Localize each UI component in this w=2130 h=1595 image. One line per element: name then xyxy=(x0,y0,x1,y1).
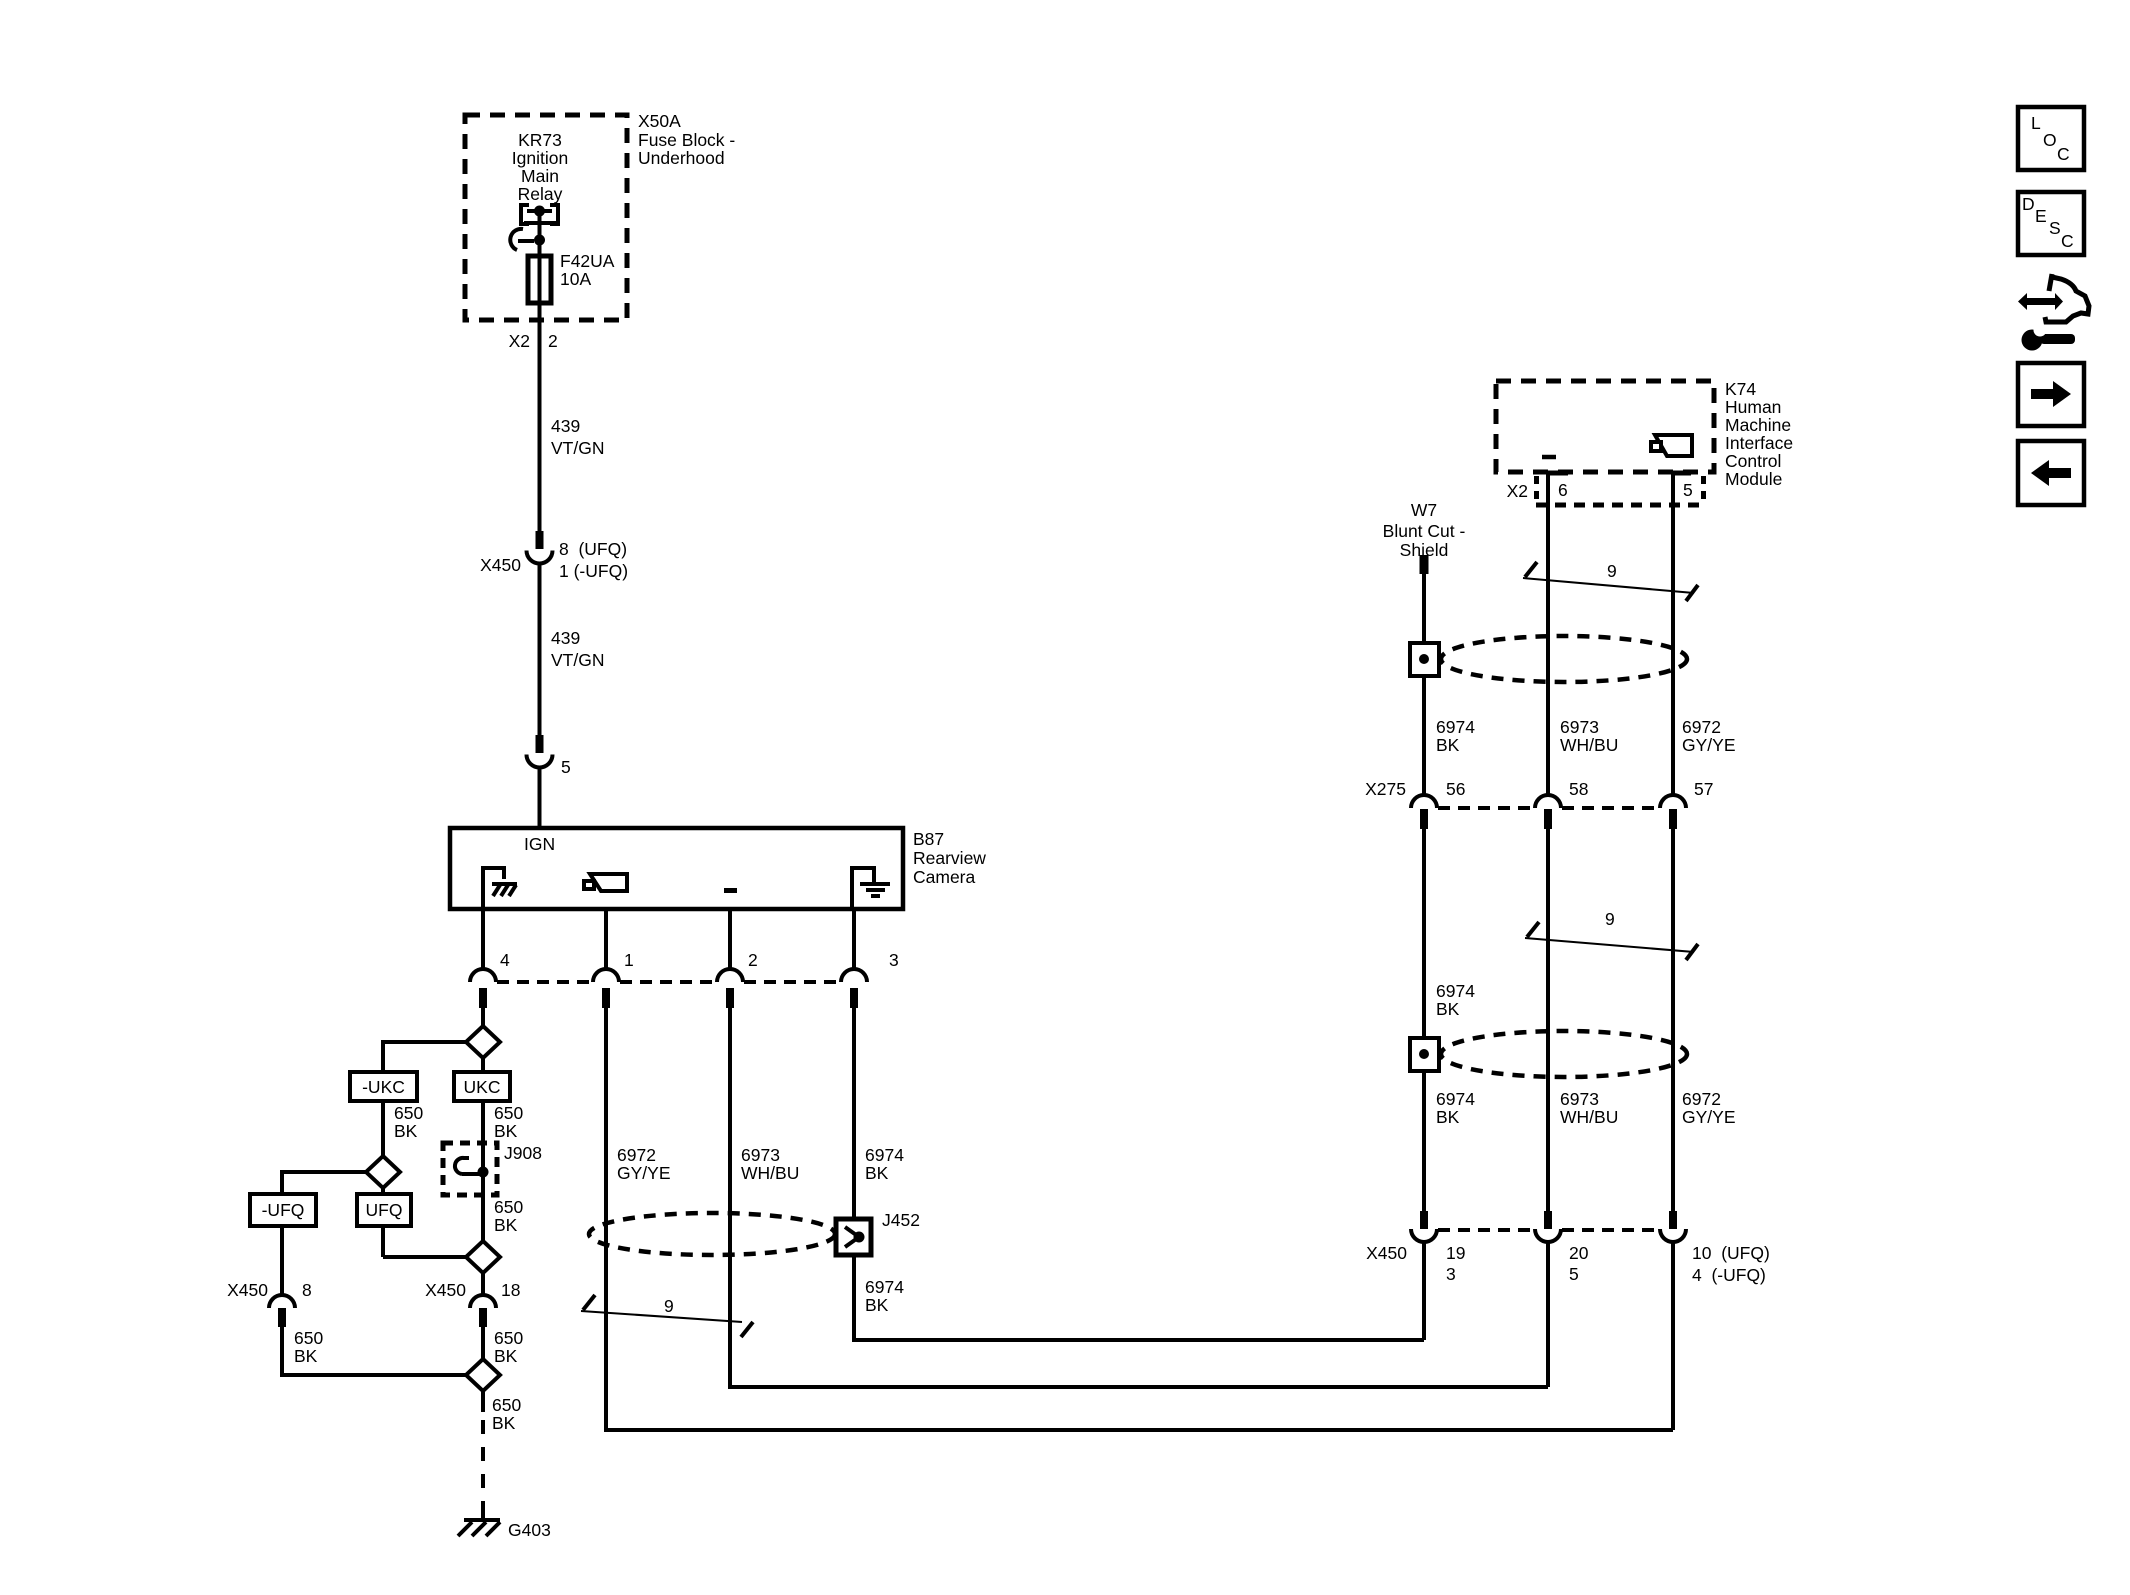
svg-text:650: 650 xyxy=(492,1395,521,1415)
svg-text:6973: 6973 xyxy=(741,1145,780,1165)
svg-text:VT/GN: VT/GN xyxy=(551,650,604,670)
svg-text:IGN: IGN xyxy=(524,834,555,854)
svg-text:Interface: Interface xyxy=(1725,433,1793,453)
svg-text:57: 57 xyxy=(1694,779,1713,799)
svg-text:Blunt Cut -: Blunt Cut - xyxy=(1383,521,1466,541)
svg-text:WH/BU: WH/BU xyxy=(741,1163,799,1183)
svg-text:Rearview: Rearview xyxy=(913,848,986,868)
svg-text:O: O xyxy=(2043,130,2057,150)
svg-text:1: 1 xyxy=(624,950,634,970)
svg-text:6974: 6974 xyxy=(1436,717,1475,737)
svg-text:G403: G403 xyxy=(508,1520,551,1540)
svg-text:2: 2 xyxy=(748,950,758,970)
svg-text:6974: 6974 xyxy=(865,1145,904,1165)
svg-text:5: 5 xyxy=(1569,1264,1579,1284)
svg-text:X450: X450 xyxy=(425,1280,466,1300)
svg-text:9: 9 xyxy=(1605,909,1615,929)
svg-text:10A: 10A xyxy=(560,269,591,289)
svg-text:X50A: X50A xyxy=(638,111,681,131)
svg-text:6974: 6974 xyxy=(1436,981,1475,1001)
svg-text:BK: BK xyxy=(294,1346,318,1366)
svg-text:D: D xyxy=(2022,194,2035,214)
svg-text:20: 20 xyxy=(1569,1243,1589,1263)
svg-text:8: 8 xyxy=(302,1280,312,1300)
svg-text:Control: Control xyxy=(1725,451,1781,471)
svg-text:GY/YE: GY/YE xyxy=(617,1163,671,1183)
svg-text:BK: BK xyxy=(492,1413,516,1433)
svg-text:W7: W7 xyxy=(1411,500,1437,520)
svg-text:4 (-UFQ): 4 (-UFQ) xyxy=(1692,1265,1766,1285)
svg-text:X2: X2 xyxy=(509,331,530,351)
svg-text:5: 5 xyxy=(1683,480,1693,500)
svg-text:6974: 6974 xyxy=(865,1277,904,1297)
svg-text:650: 650 xyxy=(494,1103,523,1123)
svg-text:58: 58 xyxy=(1569,779,1588,799)
svg-text:1 (-UFQ): 1 (-UFQ) xyxy=(559,561,628,581)
svg-text:Machine: Machine xyxy=(1725,415,1791,435)
svg-text:650: 650 xyxy=(294,1328,323,1348)
svg-text:GY/YE: GY/YE xyxy=(1682,735,1736,755)
svg-text:BK: BK xyxy=(1436,999,1460,1019)
svg-text:6974: 6974 xyxy=(1436,1089,1475,1109)
svg-text:E: E xyxy=(2035,206,2047,226)
svg-text:6972: 6972 xyxy=(1682,1089,1721,1109)
svg-text:3: 3 xyxy=(1446,1264,1456,1284)
svg-text:C: C xyxy=(2061,231,2074,251)
svg-text:S: S xyxy=(2049,218,2061,238)
svg-text:4: 4 xyxy=(500,950,510,970)
svg-text:UFQ: UFQ xyxy=(366,1200,403,1220)
svg-text:650: 650 xyxy=(394,1103,423,1123)
svg-text:Camera: Camera xyxy=(913,867,976,887)
svg-text:F42UA: F42UA xyxy=(560,251,615,271)
svg-text:L: L xyxy=(2031,113,2041,133)
svg-text:Human: Human xyxy=(1725,397,1781,417)
svg-text:-UKC: -UKC xyxy=(362,1077,405,1097)
svg-text:J452: J452 xyxy=(882,1210,920,1230)
svg-text:BK: BK xyxy=(865,1295,889,1315)
svg-text:6972: 6972 xyxy=(1682,717,1721,737)
svg-text:Relay: Relay xyxy=(518,184,563,204)
svg-text:650: 650 xyxy=(494,1197,523,1217)
svg-text:GY/YE: GY/YE xyxy=(1682,1107,1736,1127)
svg-text:Ignition: Ignition xyxy=(512,148,568,168)
svg-text:-UFQ: -UFQ xyxy=(262,1200,305,1220)
svg-text:Fuse Block -: Fuse Block - xyxy=(638,130,735,150)
svg-text:9: 9 xyxy=(664,1296,674,1316)
svg-text:439: 439 xyxy=(551,416,580,436)
svg-text:WH/BU: WH/BU xyxy=(1560,735,1618,755)
svg-text:BK: BK xyxy=(494,1215,518,1235)
svg-text:BK: BK xyxy=(494,1346,518,1366)
svg-text:X450: X450 xyxy=(1366,1243,1407,1263)
svg-text:WH/BU: WH/BU xyxy=(1560,1107,1618,1127)
svg-text:B87: B87 xyxy=(913,829,944,849)
svg-text:56: 56 xyxy=(1446,779,1465,799)
svg-text:8 (UFQ): 8 (UFQ) xyxy=(559,539,627,559)
svg-text:6972: 6972 xyxy=(617,1145,656,1165)
svg-text:Module: Module xyxy=(1725,469,1782,489)
svg-text:439: 439 xyxy=(551,628,580,648)
svg-text:C: C xyxy=(2057,144,2070,164)
svg-text:BK: BK xyxy=(1436,1107,1460,1127)
svg-text:19: 19 xyxy=(1446,1243,1465,1263)
svg-text:BK: BK xyxy=(1436,735,1460,755)
svg-text:5: 5 xyxy=(561,757,571,777)
svg-text:2: 2 xyxy=(548,331,558,351)
svg-text:6: 6 xyxy=(1558,480,1568,500)
svg-text:18: 18 xyxy=(501,1280,520,1300)
svg-text:J908: J908 xyxy=(504,1143,542,1163)
svg-text:BK: BK xyxy=(394,1121,418,1141)
svg-text:X2: X2 xyxy=(1507,481,1528,501)
svg-text:6973: 6973 xyxy=(1560,1089,1599,1109)
svg-text:6973: 6973 xyxy=(1560,717,1599,737)
svg-text:VT/GN: VT/GN xyxy=(551,438,604,458)
svg-text:Main: Main xyxy=(521,166,559,186)
svg-text:X450: X450 xyxy=(480,555,521,575)
svg-text:K74: K74 xyxy=(1725,379,1756,399)
svg-text:X275: X275 xyxy=(1365,779,1406,799)
svg-text:650: 650 xyxy=(494,1328,523,1348)
svg-text:UKC: UKC xyxy=(464,1077,501,1097)
svg-text:10 (UFQ): 10 (UFQ) xyxy=(1692,1243,1770,1263)
svg-text:BK: BK xyxy=(494,1121,518,1141)
svg-text:BK: BK xyxy=(865,1163,889,1183)
svg-text:3: 3 xyxy=(889,950,899,970)
svg-text:9: 9 xyxy=(1607,561,1617,581)
svg-text:KR73: KR73 xyxy=(518,130,562,150)
svg-text:Underhood: Underhood xyxy=(638,148,725,168)
svg-text:X450: X450 xyxy=(227,1280,268,1300)
